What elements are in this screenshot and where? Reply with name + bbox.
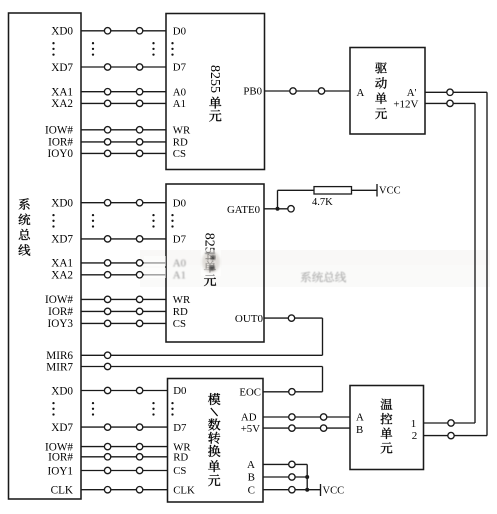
svg-text:D0: D0	[173, 26, 186, 38]
svg-text:CS: CS	[173, 318, 186, 330]
svg-text:D0: D0	[173, 385, 186, 397]
svg-text:IOY0: IOY0	[48, 148, 74, 160]
svg-text:A: A	[356, 412, 364, 424]
svg-text:A1: A1	[173, 270, 186, 282]
svg-text:XD7: XD7	[51, 234, 73, 246]
svg-text:WR: WR	[173, 125, 191, 137]
svg-text:CLK: CLK	[51, 485, 73, 497]
svg-text:A': A'	[407, 87, 417, 99]
svg-text:RD: RD	[173, 306, 188, 318]
svg-text:D0: D0	[173, 197, 186, 209]
svg-text:VCC: VCC	[379, 186, 401, 197]
svg-text:IOW#: IOW#	[45, 294, 73, 306]
svg-text:IOY1: IOY1	[48, 465, 73, 477]
svg-text:D7: D7	[173, 422, 187, 434]
svg-text:B: B	[248, 472, 255, 484]
svg-text:IOR#: IOR#	[48, 137, 73, 149]
svg-text:OUT0: OUT0	[235, 313, 264, 325]
svg-text:8255: 8255	[207, 65, 222, 93]
svg-text:A: A	[357, 87, 365, 99]
svg-text:XA2: XA2	[51, 270, 73, 282]
svg-text:4.7K: 4.7K	[312, 197, 333, 208]
svg-text:+12V: +12V	[393, 99, 418, 111]
svg-text:XA2: XA2	[51, 98, 73, 110]
svg-text:MIR6: MIR6	[46, 350, 73, 362]
svg-text:RD: RD	[173, 452, 188, 464]
svg-text:WR: WR	[173, 294, 191, 306]
svg-text:IOR#: IOR#	[48, 306, 73, 318]
svg-text:IOR#: IOR#	[48, 452, 73, 464]
svg-text:XD7: XD7	[51, 62, 73, 74]
svg-text:IOW#: IOW#	[45, 125, 73, 137]
svg-text:IOY3: IOY3	[48, 318, 74, 330]
svg-text:A0: A0	[173, 258, 186, 270]
svg-text:XD0: XD0	[51, 26, 73, 38]
svg-text:A1: A1	[173, 98, 186, 110]
svg-text:XD0: XD0	[51, 198, 73, 210]
svg-text:D7: D7	[173, 234, 187, 246]
svg-text:1: 1	[411, 418, 417, 430]
svg-text:+5V: +5V	[241, 423, 260, 435]
svg-text:XD7: XD7	[51, 422, 73, 434]
svg-text:A: A	[247, 459, 255, 471]
svg-text:CS: CS	[173, 465, 186, 477]
svg-text:MIR7: MIR7	[46, 361, 73, 373]
svg-text:GATE0: GATE0	[227, 204, 260, 216]
svg-text:CLK: CLK	[173, 484, 195, 496]
svg-text:C: C	[248, 484, 255, 496]
svg-text:RD: RD	[173, 137, 188, 149]
svg-text:PB0: PB0	[243, 86, 262, 98]
svg-text:XD0: XD0	[51, 385, 73, 397]
svg-text:XA1: XA1	[51, 87, 73, 99]
svg-text:D7: D7	[173, 62, 187, 74]
svg-text:EOC: EOC	[239, 387, 261, 399]
svg-text:XA1: XA1	[51, 258, 73, 270]
svg-text:B: B	[356, 424, 363, 436]
svg-text:2: 2	[412, 430, 418, 442]
svg-text:CS: CS	[173, 148, 186, 160]
svg-text:A0: A0	[173, 86, 186, 98]
svg-text:VCC: VCC	[323, 486, 345, 497]
